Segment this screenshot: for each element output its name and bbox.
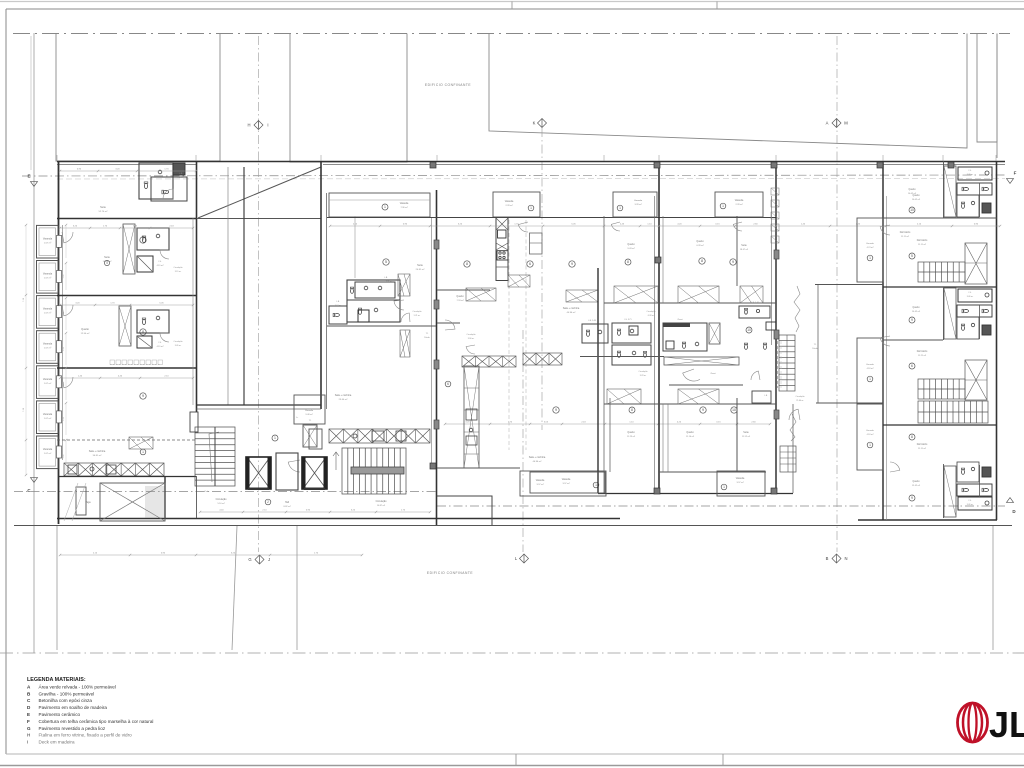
balcony varanda left 2 — [37, 261, 59, 294]
svg-text:2.28 m²: 2.28 m² — [735, 203, 742, 206]
furniture dotted row — [110, 364, 161, 366]
svg-text:Dormitorio: Dormitorio — [917, 443, 928, 446]
closet hatch — [607, 389, 641, 404]
varanda box bottom center — [520, 471, 606, 496]
right wing varanda strip — [857, 404, 883, 470]
door swing — [160, 250, 169, 259]
door swing — [466, 345, 475, 354]
closet hatch — [678, 286, 719, 303]
svg-text:1.67 m²: 1.67 m² — [44, 241, 52, 244]
wall x604 — [603, 216, 605, 493]
door swing — [789, 409, 800, 420]
small bath L.B. x752 — [752, 391, 771, 403]
svg-text:Deck em madeira: Deck em madeira — [39, 740, 75, 745]
ramp bottom wall — [197, 218, 322, 220]
shaft between elevators — [276, 453, 298, 490]
bathroom cluster mid-left — [347, 280, 400, 322]
svg-text:4.19 m²: 4.19 m² — [157, 345, 164, 348]
svg-text:Hall: Hall — [285, 502, 289, 504]
section line C-D dash-dot — [14, 491, 437, 493]
svg-text:11.16 m²: 11.16 m² — [686, 435, 694, 438]
bath right wing unit3 (bottom) — [958, 497, 992, 510]
svg-text:1: 1 — [274, 436, 276, 440]
frame tick bottom x516 — [515, 754, 517, 766]
svg-text:L.B.: L.B. — [764, 395, 768, 397]
wall x818 courtyard — [817, 284, 819, 403]
svg-text:8: 8 — [142, 330, 144, 334]
neighbour building block 3 sloped — [489, 34, 967, 149]
gridline L — [522, 330, 524, 552]
duct box left of kitchen — [309, 429, 322, 449]
svg-text:Ftalina em ferro vitrine, fixa: Ftalina em ferro vitrine, fixado a perfi… — [39, 733, 133, 738]
stair wall stub — [190, 412, 198, 432]
lot boundary left vline — [33, 33, 35, 653]
svg-text:Varanda: Varanda — [866, 429, 875, 432]
svg-text:Sala + cozinha: Sala + cozinha — [335, 394, 352, 397]
svg-text:EDIFICIO CONFINANTE: EDIFICIO CONFINANTE — [427, 571, 473, 575]
door swing — [288, 460, 300, 472]
lot boundary bottom dash-dot line — [0, 652, 1024, 654]
svg-text:E: E — [27, 712, 30, 717]
long counter diagonal bar — [580, 356, 664, 358]
svg-text:L.B. 5.46: L.B. 5.46 — [751, 302, 759, 304]
svg-text:K: K — [533, 121, 536, 126]
svg-text:5: 5 — [911, 254, 913, 258]
svg-text:5.21 m²: 5.21 m² — [414, 314, 421, 317]
svg-text:11.52 m²: 11.52 m² — [742, 435, 750, 438]
svg-text:Varanda: Varanda — [43, 237, 53, 240]
duct near stair — [303, 425, 317, 447]
svg-text:3.09 m²: 3.09 m² — [967, 503, 974, 506]
svg-text:Varanda: Varanda — [634, 199, 643, 202]
svg-text:Varanda: Varanda — [305, 409, 314, 412]
svg-text:I.S.: I.S. — [969, 500, 972, 502]
frame tick top x512 — [511, 2, 513, 10]
wall y403 connector — [816, 402, 883, 404]
svg-text:Palier: Palier — [205, 490, 210, 493]
right wing varanda strip — [857, 218, 883, 282]
svg-text:A: A — [826, 121, 829, 126]
svg-text:15.42 m²: 15.42 m² — [912, 484, 921, 487]
svg-text:8.82 m²: 8.82 m² — [283, 505, 290, 508]
balcony varanda left 1 — [37, 225, 59, 258]
frame tick bottom x723 — [722, 754, 724, 766]
svg-text:I.S. 3.71: I.S. 3.71 — [624, 319, 631, 321]
bath L.B. 2.98 — [663, 323, 707, 351]
svg-text:3.26 m²: 3.26 m² — [178, 176, 185, 179]
svg-text:9: 9 — [732, 260, 734, 264]
svg-text:T.1: T.1 — [426, 333, 429, 335]
svg-text:I.S.: I.S. — [969, 292, 972, 294]
gridline H-I / G-J — [258, 36, 260, 552]
frame tick top x717 — [716, 2, 718, 10]
svg-text:9: 9 — [911, 496, 913, 500]
svg-text:Gravilha - 100% permeável: Gravilha - 100% permeável — [39, 691, 95, 696]
gridline E vertical — [30, 36, 32, 170]
door swing — [394, 300, 404, 310]
staircase core right — [342, 448, 406, 494]
small stair x780 — [779, 335, 795, 391]
wall ticks x776 — [771, 188, 779, 195]
svg-text:G: G — [27, 726, 31, 731]
svg-text:6: 6 — [529, 262, 531, 266]
svg-text:Sala + cozinha: Sala + cozinha — [563, 307, 580, 310]
wall x943 unit3 — [943, 464, 945, 518]
dimension chain — [60, 227, 193, 229]
sheet top edge line — [0, 1, 1024, 3]
wall x943 unit2 — [943, 287, 945, 340]
section line E-F dash-dot — [22, 175, 1005, 176]
closet hatch — [466, 288, 496, 301]
svg-text:12.50 m²: 12.50 m² — [81, 332, 90, 335]
svg-text:T.1: T.1 — [309, 420, 312, 422]
door swing — [880, 336, 890, 346]
partition x355 — [354, 216, 356, 278]
svg-text:G: G — [248, 557, 251, 562]
kitchen strip unit3 — [944, 466, 956, 517]
hall top wall y405 — [197, 404, 322, 406]
rear step block — [437, 496, 493, 525]
kitchen counter mid-left — [329, 429, 430, 443]
door swing — [751, 371, 760, 380]
svg-text:3.97 m²: 3.97 m² — [536, 483, 543, 486]
svg-text:5: 5 — [385, 260, 387, 264]
JLL logo mark — [958, 703, 988, 742]
svg-text:Closet: Closet — [710, 372, 716, 375]
svg-text:1: 1 — [619, 206, 621, 210]
svg-text:1: 1 — [595, 483, 597, 487]
varanda 9.48 box — [294, 395, 325, 424]
garage wall x165 — [164, 476, 166, 519]
svg-text:Circulação: Circulação — [796, 395, 805, 398]
bath right wing unit1 — [958, 167, 992, 180]
column stub — [434, 420, 439, 429]
wall x598 — [597, 268, 599, 493]
wall y290 center-left — [437, 289, 490, 291]
break line zigzag — [794, 286, 800, 332]
svg-text:Quarto: Quarto — [81, 328, 89, 331]
staircase right wing upper — [918, 262, 965, 282]
column stub right — [774, 330, 779, 339]
building outer wall top — [57, 161, 1005, 163]
door swing — [163, 189, 173, 199]
wall y326 mid-left — [327, 325, 436, 327]
svg-text:Quarto: Quarto — [912, 480, 920, 483]
svg-text:Dormitorio: Dormitorio — [917, 350, 928, 353]
svg-text:9: 9 — [555, 408, 557, 412]
svg-text:Prédio: Prédio — [812, 347, 817, 350]
svg-text:Varanda: Varanda — [43, 378, 53, 381]
svg-text:6: 6 — [911, 364, 913, 368]
building rear wall middle part — [598, 493, 793, 495]
svg-text:Circulação: Circulação — [216, 498, 228, 501]
left corridor wall x196 — [196, 161, 198, 412]
svg-text:Varanda: Varanda — [43, 448, 53, 451]
lot division bottom right — [992, 526, 994, 650]
closet hatch — [400, 330, 410, 357]
svg-text:B: B — [826, 556, 829, 561]
svg-text:18.47 m²: 18.47 m² — [740, 248, 749, 251]
vertical dim chain left — [65, 225, 67, 258]
left unit wall y295 — [57, 295, 196, 297]
counter strip y356 — [462, 356, 516, 367]
wall x436 — [436, 190, 438, 525]
dimension chain — [60, 170, 196, 172]
svg-text:3.15 m²: 3.15 m² — [175, 270, 182, 273]
wall y303 — [604, 302, 659, 304]
wall y385 mid-right — [669, 384, 743, 386]
right wing separation y287 — [883, 286, 997, 288]
balcony varanda left 4 — [37, 331, 59, 364]
svg-text:E: E — [27, 174, 30, 179]
wall joint — [655, 257, 661, 263]
varanda box top mid-right — [715, 192, 763, 217]
wall joint — [771, 162, 777, 168]
svg-text:1: 1 — [142, 450, 144, 454]
closet hatch — [129, 437, 153, 449]
svg-text:10.62 m²: 10.62 m² — [912, 198, 921, 201]
lot division bottom 1 — [56, 526, 58, 650]
parking vaga cross — [100, 483, 165, 521]
svg-text:6.33 m²: 6.33 m² — [648, 314, 655, 317]
svg-text:1.67 m²: 1.67 m² — [44, 382, 52, 385]
sheet frame bottom line — [6, 753, 1024, 755]
svg-text:5.16 m²: 5.16 m² — [217, 502, 224, 505]
neighbour building block 2 — [290, 34, 407, 163]
door swing — [401, 313, 410, 322]
closet hatch — [508, 275, 530, 287]
svg-text:Cobertura em telha cerâmica ti: Cobertura em telha cerâmica tipo marselh… — [39, 719, 154, 724]
svg-text:I: I — [27, 740, 28, 745]
svg-text:Sala + cozinha: Sala + cozinha — [89, 450, 106, 453]
svg-text:N: N — [844, 556, 847, 561]
svg-text:Circulação: Circulação — [174, 340, 183, 343]
svg-text:8: 8 — [701, 259, 703, 263]
wall x943 unit1 — [943, 161, 945, 218]
column stub — [434, 300, 439, 309]
kitchen strip unit1 — [944, 166, 956, 217]
svg-text:4.18 m²: 4.18 m² — [867, 433, 874, 436]
staircase right wing middle — [918, 379, 965, 399]
wall joint — [771, 488, 777, 494]
svg-text:Betonilha com epóxi cinza: Betonilha com epóxi cinza — [39, 698, 93, 703]
wall x776 — [775, 161, 777, 493]
svg-text:8: 8 — [627, 260, 629, 264]
dimension chain — [330, 225, 1000, 227]
small stair x780 lower — [780, 446, 796, 472]
lot division bottom 3 — [296, 526, 298, 650]
svg-text:3.64 m²: 3.64 m² — [335, 304, 342, 307]
svg-text:1: 1 — [384, 205, 386, 209]
fridge appliance — [530, 233, 543, 254]
varanda box top mid-left — [329, 193, 430, 217]
svg-text:Pavimento revestido a pedra li: Pavimento revestido a pedra lioz — [39, 726, 106, 731]
dimension chain — [60, 304, 193, 306]
svg-text:Varanda: Varanda — [43, 413, 53, 416]
svg-text:F: F — [27, 719, 30, 724]
svg-text:Quarto: Quarto — [696, 240, 704, 243]
lot division bottom 2 — [232, 526, 237, 650]
svg-text:10.62 m²: 10.62 m² — [908, 192, 917, 195]
svg-text:Circulação: Circulação — [376, 500, 388, 503]
svg-text:11.11 m²: 11.11 m² — [918, 447, 926, 450]
svg-text:9.48 m²: 9.48 m² — [305, 413, 312, 416]
wall x793 — [792, 404, 794, 493]
wall y404 mid-right — [659, 403, 776, 405]
varanda box top center — [493, 192, 540, 217]
building rear wall right part — [858, 519, 997, 521]
wall joint — [654, 488, 660, 494]
svg-text:T.1: T.1 — [814, 344, 817, 346]
svg-text:1: 1 — [869, 443, 871, 447]
wall joint — [430, 162, 436, 168]
svg-text:Área verde relvada - 100% perm: Área verde relvada - 100% permeável — [39, 683, 116, 689]
svg-text:1: 1 — [530, 206, 532, 210]
svg-text:3.09 m²: 3.09 m² — [967, 173, 974, 176]
svg-text:2.28 m²: 2.28 m² — [505, 204, 512, 207]
svg-text:8: 8 — [466, 262, 468, 266]
svg-text:3.90 m²: 3.90 m² — [468, 337, 475, 340]
svg-text:Dormitorio: Dormitorio — [900, 231, 911, 234]
svg-text:Varanda: Varanda — [866, 242, 875, 245]
svg-text:10: 10 — [732, 408, 736, 412]
column line x244 — [243, 167, 245, 405]
staircase core left — [195, 427, 235, 486]
dimension chain — [445, 423, 770, 425]
svg-text:L.B.: L.B. — [336, 301, 340, 303]
svg-text:3.05 m²: 3.05 m² — [175, 344, 182, 347]
svg-text:Suite: Suite — [104, 256, 110, 259]
svg-text:Varanda: Varanda — [43, 308, 53, 311]
svg-text:Suite: Suite — [743, 431, 749, 434]
svg-text:L.B.: L.B. — [384, 277, 388, 279]
door swing — [518, 222, 528, 232]
svg-text:Quarto: Quarto — [686, 431, 694, 434]
svg-text:1: 1 — [869, 377, 871, 381]
left unit wall y368 — [57, 367, 196, 369]
svg-text:Varanda: Varanda — [866, 363, 875, 366]
svg-text:3.97 m²: 3.97 m² — [562, 482, 569, 485]
sheet bottom edge line — [0, 765, 1024, 767]
door swing — [160, 333, 169, 342]
svg-text:40.96 m²: 40.96 m² — [567, 311, 576, 314]
balcony varanda left 3 — [37, 296, 59, 329]
svg-text:Circulação: Circulação — [174, 266, 183, 269]
svg-text:46.96 m²: 46.96 m² — [533, 460, 542, 463]
svg-text:Circulação: Circulação — [639, 370, 648, 373]
right wing separation y425 — [883, 424, 997, 426]
divider x610 lower — [609, 398, 611, 472]
svg-text:Pavimento em soalho de madeira: Pavimento em soalho de madeira — [39, 705, 108, 710]
column line x228 — [227, 167, 229, 405]
shaft hatch column center — [464, 366, 479, 468]
garage pillar — [76, 487, 86, 515]
staircase right wing lower flight — [918, 401, 988, 423]
svg-text:3.23 m²: 3.23 m² — [640, 374, 647, 377]
divider x737 lower — [736, 398, 738, 472]
closet hatch — [614, 286, 658, 303]
lot rear boundary line — [14, 525, 1012, 527]
bathroom top-left unit — [139, 163, 173, 199]
dimension chain — [60, 377, 193, 379]
closet hatch — [740, 286, 763, 303]
vertical dim chain x26 — [25, 225, 27, 475]
svg-text:Varanda: Varanda — [562, 478, 571, 481]
door swing — [890, 462, 900, 472]
column stub right — [774, 410, 779, 419]
svg-text:I.S.: I.S. — [158, 261, 161, 263]
svg-text:3.28 m²: 3.28 m² — [634, 203, 641, 206]
svg-text:1: 1 — [722, 204, 724, 208]
svg-text:11.11 m²: 11.11 m² — [901, 235, 909, 238]
svg-text:LEGENDA MATERIAIS:: LEGENDA MATERIAIS: — [27, 677, 86, 683]
svg-text:11.21 m²: 11.21 m² — [918, 354, 926, 357]
svg-text:Quarto: Quarto — [627, 243, 635, 246]
balcony varanda left 7 — [37, 436, 59, 469]
dimension chain — [60, 554, 362, 556]
svg-text:3.09 m²: 3.09 m² — [967, 295, 974, 298]
svg-text:1.67 m²: 1.67 m² — [44, 417, 52, 420]
svg-text:9: 9 — [571, 262, 573, 266]
bathroom left unit row2 — [123, 224, 135, 274]
svg-text:1.67 m²: 1.67 m² — [44, 347, 52, 350]
closet hatch — [566, 290, 598, 302]
left unit wall y218 — [57, 218, 196, 220]
gridline A-M / B-N — [836, 36, 838, 552]
svg-text:Varanda: Varanda — [735, 199, 744, 202]
door swing — [62, 232, 73, 243]
divider x737 — [736, 216, 738, 286]
svg-text:1.67 m²: 1.67 m² — [44, 312, 52, 315]
column stub right — [774, 250, 779, 259]
neighbour building block 4 — [977, 34, 997, 143]
svg-text:Quarto: Quarto — [912, 306, 920, 309]
svg-text:Varanda: Varanda — [43, 343, 53, 346]
svg-text:1.67 m²: 1.67 m² — [44, 452, 52, 455]
bathroom cluster mid-right — [582, 324, 608, 343]
door swing — [683, 369, 700, 381]
lot boundary top dashed line — [13, 33, 1010, 35]
svg-text:8: 8 — [631, 408, 633, 412]
right wing wall x883 — [882, 161, 884, 520]
svg-text:10: 10 — [747, 328, 751, 332]
door swing — [611, 222, 620, 231]
svg-text:Dormitorio: Dormitorio — [917, 239, 928, 242]
svg-text:3.97 m²: 3.97 m² — [736, 481, 743, 484]
svg-text:H: H — [247, 123, 250, 128]
svg-text:7.93 m²: 7.93 m² — [456, 299, 463, 302]
closet hatch — [678, 389, 719, 404]
svg-text:J: J — [268, 557, 270, 562]
svg-text:I.S.: I.S. — [969, 170, 972, 172]
building outer wall right — [996, 161, 998, 520]
svg-text:6: 6 — [447, 382, 449, 386]
divider x668 lower — [667, 404, 669, 472]
wall joint — [948, 162, 954, 168]
wall joint — [430, 463, 436, 469]
svg-text:L.B.: L.B. — [179, 173, 183, 175]
svg-text:23.60 m²: 23.60 m² — [339, 398, 348, 401]
svg-text:10.87 m²: 10.87 m² — [377, 504, 386, 507]
elevator shaft 1 — [246, 457, 271, 489]
svg-text:10: 10 — [910, 208, 914, 212]
svg-text:Circulação: Circulação — [467, 333, 476, 336]
bathroom left unit row3 — [119, 306, 131, 346]
left unit dashed wall y440 — [57, 439, 196, 441]
balcony varanda left 5 — [37, 366, 59, 399]
svg-text:1: 1 — [723, 485, 725, 489]
svg-text:Varanda: Varanda — [505, 200, 514, 203]
